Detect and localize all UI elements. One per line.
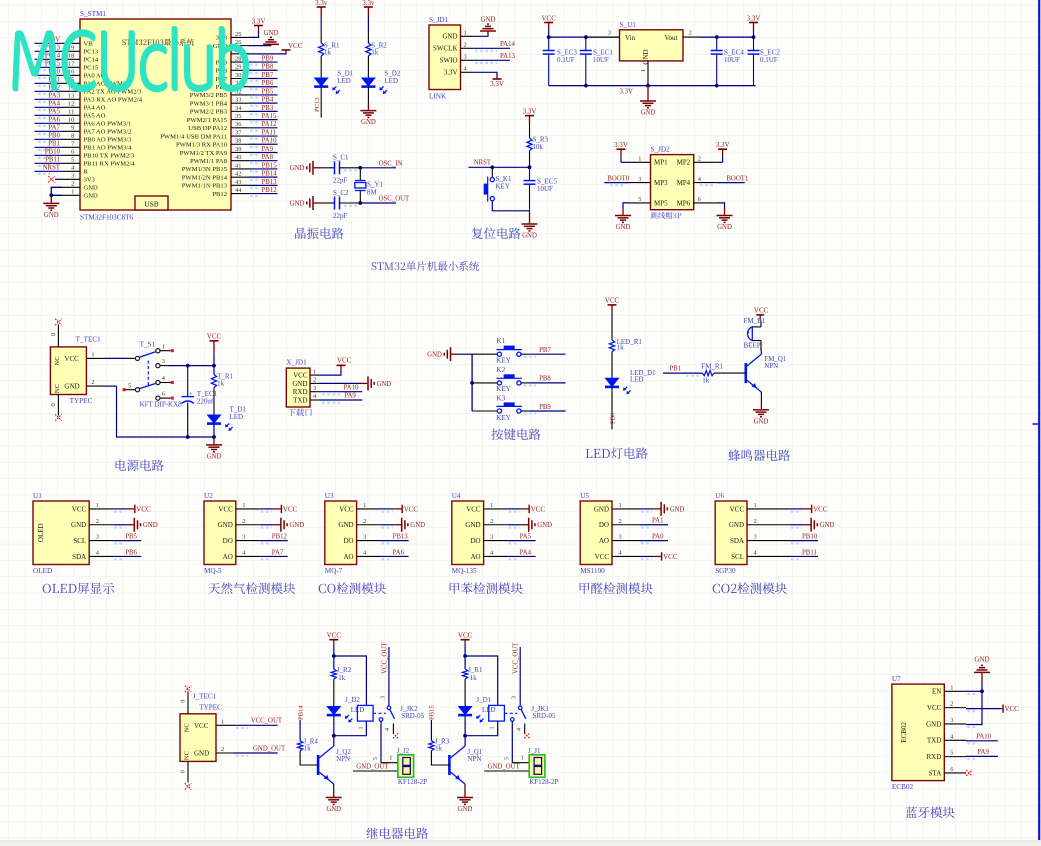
svg-text:PA15: PA15 (262, 113, 277, 120)
connector S_JD2 (jumper 3P) (630, 146, 717, 219)
svg-text:VCC: VCC (605, 297, 620, 305)
resistor LED_R1 1k (609, 338, 642, 352)
wire VCC to junction (463, 646, 467, 658)
svg-text:SDA: SDA (72, 553, 86, 561)
resistor J_R2 1k (331, 656, 351, 682)
wire GND_OUT from J_TEC1 (234, 745, 286, 755)
wire gnd to EN junction (980, 681, 984, 693)
ground below S_JD2 left (615, 216, 631, 232)
svg-text:2: 2 (490, 518, 493, 525)
mcu pin 34 (PWM2/2 PB3) (190, 105, 278, 116)
switch T_S1 (KFT DIP-KX8) (123, 341, 183, 409)
wire U6 pin3 net PB10 (790, 533, 818, 543)
resistor T_R1 1k (211, 366, 233, 388)
mcu pin 31 (PB6) (216, 80, 278, 91)
regulator U S_U1 (620, 21, 684, 86)
svg-text:GND: GND (717, 224, 732, 231)
wire U4 pin4 net PA4 (508, 549, 536, 559)
mcu pin 10 (PA6 AO PWM3/1) (35, 117, 132, 128)
svg-text:1k: 1k (338, 674, 346, 682)
svg-text:PA11: PA11 (262, 129, 277, 136)
mcu pin 28 (PB9) (216, 55, 278, 66)
svg-text:MP1: MP1 (654, 159, 668, 167)
svg-text:18: 18 (68, 53, 74, 60)
wire FM_R1 to base (714, 372, 746, 374)
title LED灯电路 (586, 447, 648, 458)
svg-text:10UF: 10UF (593, 56, 609, 64)
wire X_JD1 pin1 to VCC (320, 369, 341, 375)
svg-text:1: 1 (358, 727, 364, 730)
svg-text:2: 2 (754, 518, 757, 525)
svg-text:GND: GND (290, 522, 305, 529)
power 3.3V reset (523, 107, 537, 122)
ground buzzer (753, 410, 769, 426)
svg-text:GND: GND (522, 233, 537, 240)
svg-text:PA3 RX AO PWM2/4: PA3 RX AO PWM2/4 (84, 97, 143, 104)
svg-text:PA4 AO: PA4 AO (84, 105, 106, 112)
svg-text:1: 1 (71, 189, 74, 196)
wire OSC_OUT (340, 196, 411, 206)
capacitor S_EC3 0.1UF (543, 37, 578, 86)
wire relay pin4 stub (385, 723, 398, 738)
title 复位电路 (472, 227, 521, 239)
svg-text:GND: GND (290, 165, 305, 172)
svg-text:PB1: PB1 (669, 366, 681, 373)
svg-text:PA6 AO PWM3/1: PA6 AO PWM3/1 (84, 121, 132, 128)
svg-text:39: 39 (235, 146, 241, 153)
svg-text:PB12: PB12 (212, 191, 227, 198)
relay J_JK2 contact (373, 705, 425, 721)
svg-text:GND: GND (143, 522, 158, 529)
svg-text:0: 0 (180, 700, 187, 703)
svg-text:PB1: PB1 (48, 141, 60, 148)
svg-text:1: 1 (221, 718, 224, 725)
wire NRST rail (468, 160, 531, 170)
svg-text:1: 1 (162, 343, 165, 350)
svg-text:TXD: TXD (293, 396, 307, 404)
svg-text:3: 3 (619, 534, 622, 541)
svg-text:PC14: PC14 (84, 57, 99, 64)
title 天然气检测模块 (208, 582, 295, 594)
svg-text:AO: AO (223, 553, 233, 561)
svg-text:PB11: PB11 (45, 157, 60, 164)
svg-text:5: 5 (71, 157, 74, 164)
wire junction to relay coil top (465, 656, 498, 705)
svg-text:LED: LED (630, 376, 644, 384)
wire LED_D1 to PB0 (609, 387, 616, 430)
resistor FM_R1 1k (701, 363, 723, 385)
svg-text:LED: LED (230, 413, 244, 421)
svg-text:TYPEC: TYPEC (199, 704, 222, 712)
svg-text:GND: GND (292, 380, 307, 388)
svg-text:PA14: PA14 (500, 41, 515, 48)
wire J_D2 to lower junction (332, 715, 336, 738)
wire emitter to ground (J_Q2) (333, 784, 335, 798)
wire U3 pin3 net PB13 (381, 533, 409, 543)
label TYPEC (70, 397, 93, 405)
sensor module U5 (MS1100) (580, 492, 640, 575)
wire buzzer to FM_Q1 collector (760, 341, 762, 351)
svg-text:J_D2: J_D2 (345, 696, 360, 704)
svg-text:1: 1 (313, 368, 316, 375)
svg-text:DO: DO (223, 537, 233, 545)
wire K3 to PB9 (521, 404, 566, 414)
svg-text:PB10: PB10 (802, 533, 818, 540)
svg-text:6: 6 (71, 149, 74, 156)
svg-text:MQ-135: MQ-135 (452, 567, 477, 575)
svg-text:USB DP PA12: USB DP PA12 (188, 125, 227, 132)
svg-text:TYPEC: TYPEC (70, 397, 93, 405)
mcu pin 6 (PB10 TX PWM2/3) (35, 149, 136, 160)
svg-text:NC: NC (54, 356, 61, 366)
svg-text:PB12: PB12 (262, 187, 278, 194)
svg-text:2: 2 (96, 518, 99, 525)
svg-text:PA6: PA6 (393, 549, 405, 556)
svg-text:PB9: PB9 (262, 55, 274, 62)
svg-text:PWM1/3N PB15: PWM1/3N PB15 (182, 166, 228, 173)
bluetooth module U7 (ECB02) (892, 675, 966, 791)
mcu pin 17 (PC15) (35, 61, 99, 72)
resistor S_R3 10k (527, 136, 549, 152)
svg-text:PB15: PB15 (262, 162, 278, 169)
power 3.3v top of S_R1 (315, 0, 328, 17)
svg-text:PA0: PA0 (652, 533, 664, 540)
power VCC mcu top (282, 42, 303, 50)
svg-text:VCC: VCC (458, 632, 473, 640)
wire VCC to LED_R1 (611, 322, 613, 340)
wire junction to relay coil top (334, 656, 367, 705)
wire relay pin5 to connector J_J1 (505, 721, 530, 762)
wire junction to J_Q2 collector (333, 736, 335, 746)
svg-text:PWM1/2N PB14: PWM1/2N PB14 (182, 174, 228, 181)
svg-text:GND: GND (84, 185, 99, 192)
svg-text:NC: NC (184, 723, 191, 733)
wire OSC_IN (340, 160, 403, 170)
svg-text:GND: GND (537, 522, 552, 529)
wire U7 pin1 EN (966, 691, 982, 694)
svg-text:+: + (747, 330, 751, 337)
svg-text:PWM1/4 USB DM PA11: PWM1/4 USB DM PA11 (160, 133, 227, 140)
terminal block J_J1 KF128-2P (528, 747, 558, 786)
power VCC relay driver J_Q1 (458, 632, 473, 646)
LED LED_D1 (605, 369, 656, 395)
power VCC LED circuit (605, 297, 620, 322)
svg-text:PA10: PA10 (344, 384, 359, 391)
svg-text:28: 28 (235, 55, 241, 62)
svg-text:1k: 1k (217, 380, 225, 388)
svg-text:KEY: KEY (496, 183, 510, 191)
wire emitter to ground (J_Q1) (464, 784, 466, 798)
wire J_R1 to J_D1 (464, 679, 466, 706)
wire T_TEC1 VCC to switch (104, 357, 135, 359)
svg-text:PB11 RX PWM2/4: PB11 RX PWM2/4 (84, 161, 136, 168)
wire mcu pin27 to VCC (249, 50, 286, 54)
wire U2 pin3 net PB12 (260, 533, 288, 543)
svg-text:LINK: LINK (429, 93, 447, 101)
wire U3 pin4 net PA6 (381, 549, 409, 559)
ground left of S_C1 (sideways) (290, 161, 321, 175)
svg-text:PB10 TX PWM2/3: PB10 TX PWM2/3 (84, 153, 136, 160)
wire S_JD1 pin4 to 3.3V bar (473, 72, 498, 77)
svg-text:VCC: VCC (730, 505, 745, 513)
svg-text:1k: 1k (470, 674, 478, 682)
svg-text:DO: DO (470, 537, 480, 545)
svg-text:6: 6 (698, 196, 701, 203)
svg-text:J_TEC1: J_TEC1 (193, 693, 217, 701)
svg-text:SGP30: SGP30 (715, 567, 736, 575)
svg-text:NC: NC (184, 750, 191, 760)
svg-text:1: 1 (389, 754, 392, 761)
no-connect X T_TEC1 bottom (55, 414, 61, 420)
svg-text:3.3V: 3.3V (523, 107, 537, 115)
svg-text:3: 3 (464, 54, 467, 61)
svg-text:U1: U1 (33, 492, 42, 500)
svg-text:K1: K1 (496, 337, 505, 345)
svg-text:10UF: 10UF (537, 185, 553, 193)
mcu pin 3 no-connect X (48, 176, 62, 182)
power VCC relay driver J_Q2 (327, 632, 342, 646)
svg-text:BOOT0: BOOT0 (607, 175, 630, 182)
svg-text:S_C2: S_C2 (333, 189, 349, 197)
svg-text:1k: 1k (435, 744, 443, 752)
resistor S_R1 1k (319, 42, 340, 57)
svg-text:GND: GND (377, 381, 392, 388)
wire EN junction down to GND pin3 (966, 691, 982, 727)
svg-text:VCC: VCC (927, 704, 942, 712)
svg-text:GND: GND (218, 521, 233, 529)
svg-text:GND: GND (71, 521, 86, 529)
mcu pin 43 (PWM1/1N PB13) (182, 179, 278, 190)
wire S_JD2 pin5 to ground (623, 203, 630, 216)
svg-text:T_TEC1: T_TEC1 (76, 336, 102, 344)
svg-text:S_JD1: S_JD1 (429, 16, 449, 24)
svg-text:GND: GND (410, 522, 425, 529)
svg-text:PA6: PA6 (49, 117, 61, 124)
svg-text:41: 41 (235, 162, 241, 169)
wire J_R2 to J_D2 (333, 679, 335, 706)
mcu pin 11 (PA5 AO) (35, 109, 106, 120)
svg-text:PB5: PB5 (125, 533, 137, 540)
svg-text:1k: 1k (304, 744, 312, 752)
svg-text:VCC: VCC (136, 505, 151, 513)
watermark MCUclub (13, 26, 249, 91)
wire U5 pin2 net PA1 (640, 518, 668, 528)
svg-text:PWM1/3 RX PA10: PWM1/3 RX PA10 (176, 142, 228, 149)
ground U3 pin2 (sideways) (381, 518, 426, 532)
svg-text:PA3: PA3 (49, 93, 61, 100)
capacitor S_C2 22pF (333, 189, 349, 220)
svg-text:PB1 AO PWM3/4: PB1 AO PWM3/4 (84, 145, 133, 152)
crystal S_Y1 8M (355, 168, 384, 203)
svg-text:KF128-2P: KF128-2P (529, 778, 558, 786)
svg-text:RXD: RXD (927, 753, 942, 761)
svg-text:220uf: 220uf (197, 398, 214, 406)
svg-text:U6: U6 (715, 492, 724, 500)
svg-text:TXD: TXD (927, 737, 941, 745)
svg-text:3: 3 (638, 176, 641, 183)
svg-text:J_J2: J_J2 (397, 747, 410, 755)
svg-text:PB6: PB6 (125, 549, 137, 556)
svg-text:5: 5 (950, 750, 953, 757)
svg-text:PB0: PB0 (48, 133, 60, 140)
ground right of X_JD1 (sideways) (368, 376, 391, 390)
svg-text:GND: GND (974, 656, 989, 664)
svg-text:VCC_OUT: VCC_OUT (381, 642, 388, 674)
svg-text:1: 1 (521, 754, 524, 761)
wire PB14 down to J_R4 (299, 720, 301, 741)
ground power-circuit (206, 437, 222, 460)
transistor FM_Q1 NPN (746, 348, 787, 392)
wire BOOT0 (604, 175, 629, 185)
svg-text:1: 1 (96, 502, 99, 509)
svg-text:OLED: OLED (37, 523, 45, 542)
svg-text:GND_OUT: GND_OUT (488, 763, 521, 770)
svg-text:2: 2 (619, 518, 622, 525)
svg-text:1: 1 (638, 156, 641, 163)
svg-text:VCC: VCC (288, 42, 303, 50)
svg-text:3: 3 (512, 696, 518, 699)
svg-text:VCC: VCC (327, 632, 342, 640)
wire U5 pin3 net PA0 (640, 533, 668, 543)
svg-text:3: 3 (754, 534, 757, 541)
wire S_U1 pin2 Vout rail (683, 30, 755, 39)
svg-text:PWM1/1N PB13: PWM1/1N PB13 (182, 183, 228, 190)
svg-text:4: 4 (517, 728, 523, 731)
svg-text:PB14: PB14 (297, 705, 304, 720)
ground U4 pin2 (sideways) (508, 518, 553, 532)
svg-text:KEY: KEY (496, 385, 512, 393)
wire keys ground trunk (458, 354, 474, 411)
svg-text:PB7: PB7 (539, 347, 551, 354)
wire S_R1 to S_D1 (320, 56, 322, 78)
wire U7 pin5 RXD PA9 (966, 749, 998, 759)
svg-text:GND: GND (465, 521, 480, 529)
svg-text:VB: VB (84, 41, 94, 48)
wire GND_OUT to connector J_J1 (484, 763, 529, 771)
wire VCC_OUT to relay contact pin3 (512, 647, 521, 706)
svg-text:MP2: MP2 (677, 159, 691, 167)
LED S_D2 (361, 70, 400, 95)
mcu pin 32 (PWM3/2 PB5) (190, 88, 278, 99)
relay J_JK2 coil (357, 705, 373, 729)
svg-text:PB0 AO PWM3/3: PB0 AO PWM3/3 (84, 137, 133, 144)
LED S_D1 (314, 70, 353, 95)
svg-text:PB13: PB13 (262, 179, 278, 186)
power VCC buzzer (754, 307, 769, 321)
svg-text:PB6: PB6 (262, 80, 274, 87)
svg-text:3V3: 3V3 (84, 177, 96, 184)
key K1 (472, 337, 522, 364)
title 蜂鸣器电路 (728, 449, 790, 461)
svg-text:40: 40 (235, 154, 241, 161)
svg-text:VCC: VCC (293, 372, 308, 380)
svg-text:GND: GND (194, 750, 209, 758)
svg-text:X_JD1: X_JD1 (286, 359, 307, 367)
svg-text:8: 8 (71, 133, 74, 140)
svg-text:MP3: MP3 (654, 179, 668, 187)
svg-text:VCC: VCC (283, 505, 298, 513)
power VCC U1 pin1 (113, 505, 151, 514)
svg-text:PWM2/1 PA15: PWM2/1 PA15 (187, 117, 228, 124)
mcu U S_STM1 (80, 10, 231, 222)
svg-text:NRST: NRST (474, 160, 492, 167)
connector T_TEC1 (TYPEC) (50, 325, 105, 416)
svg-text:29: 29 (235, 64, 241, 71)
wire relay pin4 stub (517, 723, 530, 738)
svg-text:36: 36 (235, 121, 241, 128)
svg-text:MS1100: MS1100 (580, 567, 605, 575)
svg-text:42: 42 (235, 171, 241, 178)
svg-text:PB9: PB9 (539, 404, 551, 411)
mcu pin 25 (3V3) (216, 31, 249, 42)
svg-text:U7: U7 (892, 675, 901, 683)
svg-text:5: 5 (505, 757, 511, 760)
svg-text:VCC: VCC (813, 505, 828, 513)
ground below regulator (640, 86, 656, 117)
svg-text:25: 25 (235, 31, 241, 38)
svg-text:2: 2 (71, 181, 74, 188)
svg-text:GND: GND (442, 33, 457, 41)
power 3.3V left of S_JD2 (614, 141, 629, 162)
ground U2 pin2 (sideways) (260, 518, 305, 532)
svg-text:17: 17 (68, 61, 75, 68)
svg-text:AO: AO (599, 537, 609, 545)
wire K2 to PB8 (521, 376, 566, 386)
mcu pin 5 (PB11 RX PWM2/4) (35, 157, 136, 168)
svg-text:3.3V: 3.3V (252, 17, 266, 25)
svg-text:3.3v: 3.3v (315, 0, 328, 7)
svg-text:PB8: PB8 (539, 376, 551, 383)
svg-text:KFT DIP-KX8: KFT DIP-KX8 (140, 401, 183, 409)
mcu pin 1 (GND) (62, 189, 98, 200)
svg-text:3: 3 (490, 534, 493, 541)
power 3.3V regulator output (747, 14, 761, 37)
svg-text:1: 1 (754, 502, 757, 509)
svg-text:PWM3/1 PB4: PWM3/1 PB4 (190, 100, 228, 107)
mcu pin 41 (PWM1/3N PB15) (182, 162, 278, 173)
svg-text:1: 1 (363, 502, 366, 509)
title 晶振电路 (295, 227, 344, 239)
svg-text:GND: GND (326, 806, 341, 813)
ground above S_JD1 (inverted earth) (480, 17, 496, 32)
svg-text:PA7 AO PWM3/2: PA7 AO PWM3/2 (84, 129, 132, 136)
power VCC U2 pin1 (260, 505, 298, 514)
svg-text:PWM1/2 TX PA9: PWM1/2 TX PA9 (180, 150, 228, 157)
svg-text:GND: GND (264, 30, 279, 37)
wire S_JD1 pin2 PA14 (473, 41, 516, 51)
svg-text:GND: GND (641, 110, 656, 117)
ground keys (sideways) (427, 347, 458, 361)
svg-text:0: 0 (50, 333, 57, 336)
svg-text:SWCLK: SWCLK (433, 45, 458, 53)
mcu pin 9 (PA7 AO PWM3/2) (35, 125, 132, 136)
wire relay coil bottom to junction (334, 721, 367, 736)
label VCC_OUT (vertical) J_JK1 (513, 642, 520, 674)
title 下载口 (288, 408, 312, 416)
wire U4 pin3 net PA5 (508, 533, 536, 543)
wire junction to J_Q1 collector (464, 736, 466, 746)
wire U7 pin4 TXD PA10 (966, 734, 998, 744)
svg-text:KEY: KEY (496, 356, 512, 364)
svg-text:LED: LED (384, 77, 398, 85)
mcu pin 19 (PC13) (35, 45, 99, 56)
wire S_D1 to PC13 net (314, 87, 321, 118)
mcu pin 33 (PWM3/1 PB4) (190, 97, 278, 108)
capacitor S_EC1 10UF (580, 37, 614, 86)
mcu pin 4 (R) (35, 165, 89, 176)
svg-text:PB12: PB12 (272, 533, 288, 540)
wire 3.3V to S_R3 (529, 122, 531, 138)
